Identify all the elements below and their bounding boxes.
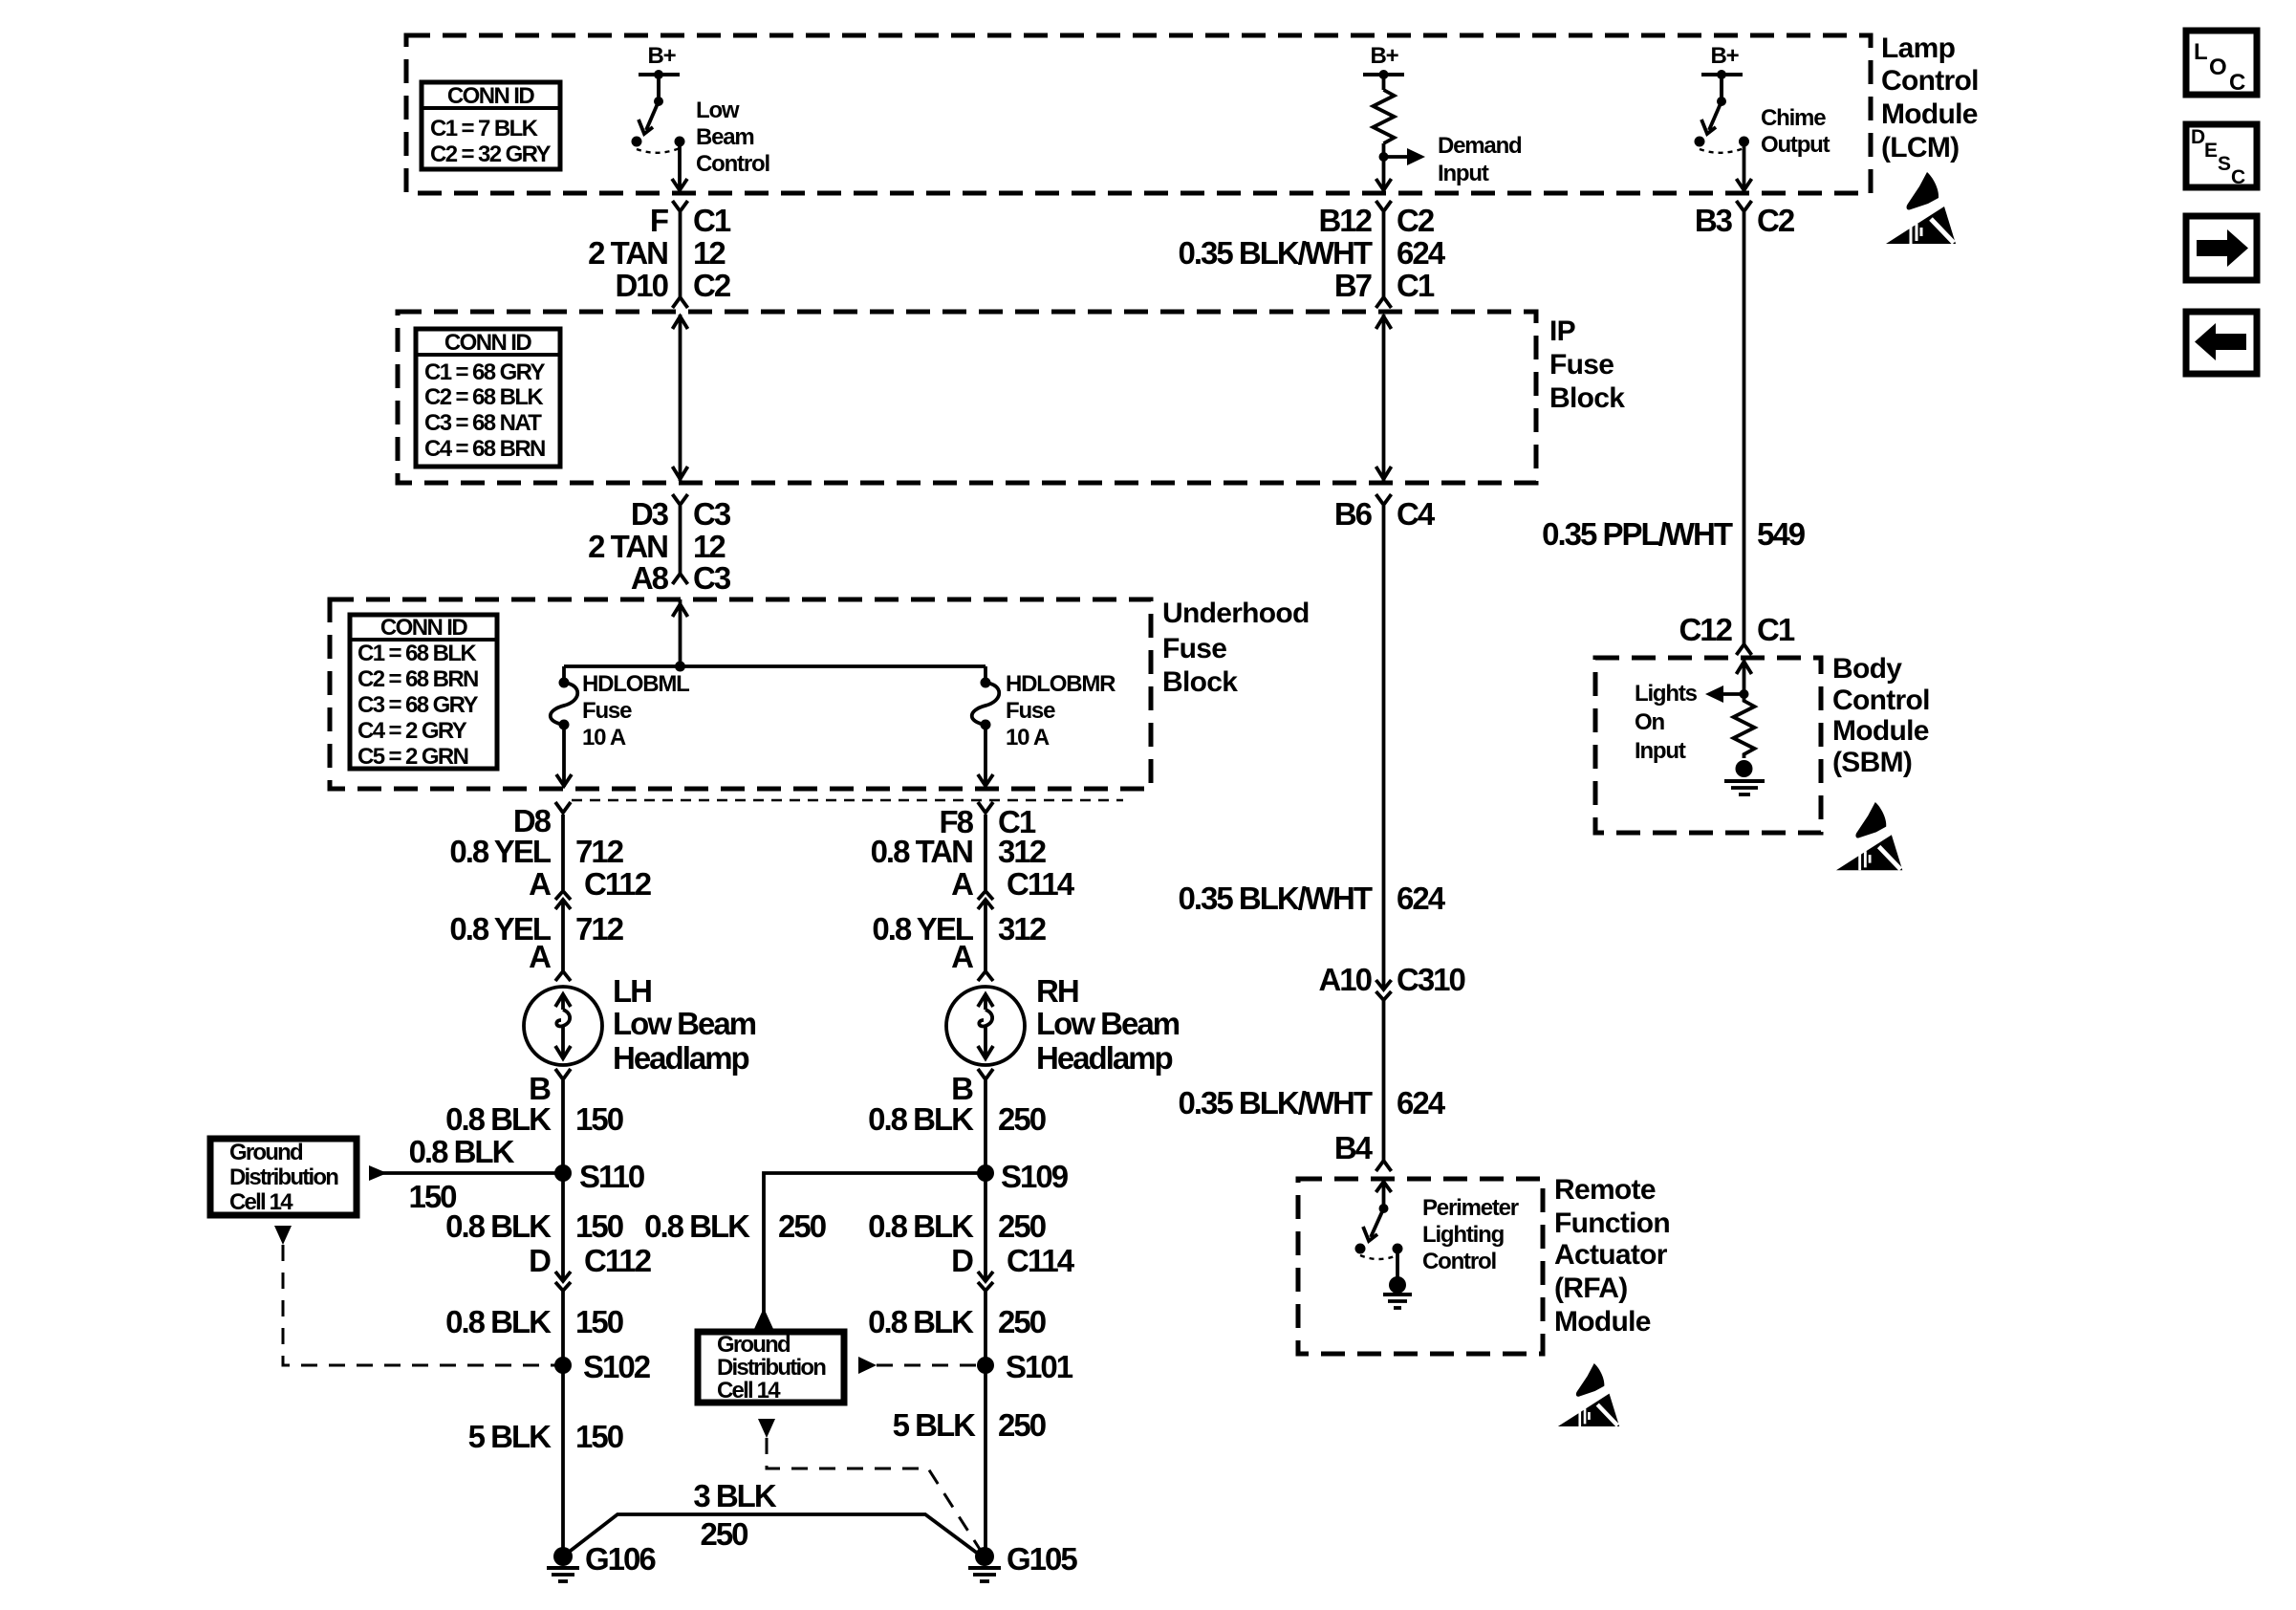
wire: S101 to G105 (984, 1365, 987, 1556)
svg-text:Distribution: Distribution (717, 1355, 826, 1381)
wire: inside IP fuse block (left) (673, 315, 688, 481)
RH headlamp label (1036, 973, 1180, 1076)
svg-text:Cell 14: Cell 14 (717, 1378, 781, 1403)
svg-text:Underhood: Underhood (1162, 598, 1310, 629)
svg-text:O: O (2209, 54, 2227, 80)
wire: IP to Underhood (2 TAN 12) (679, 506, 682, 574)
svg-text:CONN ID: CONN ID (444, 330, 531, 356)
svg-text:C5 = 2 GRN: C5 = 2 GRN (357, 744, 468, 770)
svg-text:Control: Control (696, 151, 769, 177)
svg-text:250: 250 (998, 1304, 1046, 1339)
Perimeter Lighting Control label (1422, 1195, 1519, 1274)
Underhood CONN ID table (350, 615, 497, 770)
svg-text:Beam: Beam (696, 124, 754, 150)
svg-text:E: E (2204, 140, 2218, 162)
svg-text:Control: Control (1881, 65, 1979, 97)
connector Y below RH lamp (pin B) (978, 1069, 993, 1079)
svg-text:D10: D10 (615, 268, 667, 303)
connector chevron above BCM (C12/C1) (1737, 644, 1752, 655)
svg-text:Fuse: Fuse (1162, 633, 1226, 664)
wire labels A10 C310 (1318, 962, 1464, 997)
svg-text:10 A: 10 A (1006, 725, 1050, 751)
svg-text:B4: B4 (1334, 1130, 1374, 1165)
svg-text:C2: C2 (1757, 203, 1795, 238)
wire: C310 to RFA (0.35 BLK/WHT 624) (1382, 1000, 1386, 1161)
wire: C112 to S102 (561, 1291, 565, 1365)
wire: S109 to C114 lower (984, 1173, 987, 1281)
svg-text:RH: RH (1036, 973, 1078, 1009)
svg-text:C1: C1 (1757, 612, 1795, 647)
wire: left fuse output to underhood edge (556, 725, 572, 787)
svg-text:B6: B6 (1334, 496, 1373, 532)
svg-text:Input: Input (1438, 161, 1489, 186)
wire labels 0.8 BLK 150 / D C112 (445, 1208, 652, 1278)
Demand Input label (1438, 133, 1522, 186)
svg-text:Module: Module (1881, 98, 1978, 130)
svg-text:0.8 BLK: 0.8 BLK (445, 1101, 552, 1137)
fuse HDLOBML 10A (551, 666, 578, 730)
wire: S102 to G106 (561, 1365, 565, 1556)
svg-text:Low Beam: Low Beam (1036, 1006, 1180, 1041)
svg-text:2 TAN: 2 TAN (588, 529, 667, 564)
svg-text:0.8 TAN: 0.8 TAN (871, 834, 973, 869)
ground inside BCM (1724, 760, 1765, 794)
IP CONN ID table (416, 329, 560, 467)
node: lights on input junction with left arrow (1705, 685, 1749, 703)
wire labels B3 C2 / 0.35 PPL/WHT 549 / C12 C1 (1542, 203, 1806, 647)
fuse HDLOBMR 10A (972, 666, 1000, 730)
svg-text:B+: B+ (1711, 43, 1740, 69)
splice S109 (977, 1159, 1069, 1194)
resistor: demand input pull-up (1374, 75, 1395, 157)
svg-text:Fuse: Fuse (1549, 349, 1614, 381)
svg-text:C2 = 68 BRN: C2 = 68 BRN (357, 666, 478, 692)
module IP Fuse Block dashed box (398, 312, 1536, 483)
svg-text:Headlamp: Headlamp (613, 1040, 749, 1076)
svg-text:Fuse: Fuse (1006, 698, 1055, 724)
module RFA dashed box (1298, 1179, 1543, 1354)
fuse HDLOBMR label (1006, 671, 1116, 751)
svg-text:Perimeter: Perimeter (1422, 1195, 1519, 1221)
svg-text:C114: C114 (1007, 866, 1075, 902)
connector C112 pin D arrow and chevron (555, 1272, 571, 1291)
splice S110 (554, 1159, 644, 1194)
underhood connector C1 thin dashed line (572, 799, 1123, 802)
Low Beam Control label (696, 98, 769, 177)
svg-text:624: 624 (1397, 235, 1446, 271)
svg-text:C1 = 7 BLK: C1 = 7 BLK (430, 116, 539, 141)
svg-text:C3 = 68 NAT: C3 = 68 NAT (424, 410, 542, 436)
wire labels B / 0.8 BLK 250 (868, 1071, 1046, 1137)
svg-text:A10: A10 (1318, 962, 1371, 997)
svg-text:Ground: Ground (229, 1140, 303, 1165)
wire: inside BCM with entry arrow (1737, 658, 1752, 694)
LCM module name text (1881, 33, 1979, 163)
wire: LCM to IP (0.35 BLK/WHT 624) (1382, 212, 1386, 297)
ground G105 (968, 1541, 1077, 1581)
svg-text:150: 150 (575, 1304, 623, 1339)
svg-text:Lamp: Lamp (1881, 33, 1956, 64)
svg-text:0.8 BLK: 0.8 BLK (445, 1208, 552, 1244)
wire: underhood bus (564, 664, 986, 668)
svg-text:B3: B3 (1695, 203, 1733, 238)
lamp RH low beam headlamp (946, 987, 1025, 1065)
connector chevron above IP (D10/C2) (673, 297, 688, 308)
svg-text:S101: S101 (1006, 1349, 1073, 1384)
connector Y below underhood left (D8) (555, 802, 571, 813)
svg-text:0.8 BLK: 0.8 BLK (644, 1208, 750, 1244)
low beam control switch SW1 (632, 75, 685, 153)
svg-text:C2 = 68 BLK: C2 = 68 BLK (424, 384, 544, 410)
svg-text:C112: C112 (584, 866, 652, 902)
B+ supply for low beam switch (639, 43, 680, 79)
connector Y below IP (B6/C4) (1376, 494, 1392, 505)
svg-text:G105: G105 (1007, 1541, 1077, 1577)
svg-text:L: L (2194, 39, 2208, 65)
svg-text:Input: Input (1635, 738, 1686, 764)
svg-text:Remote: Remote (1554, 1174, 1656, 1206)
svg-text:A8: A8 (631, 560, 669, 596)
lamp LH low beam headlamp (524, 987, 602, 1065)
svg-text:Module: Module (1554, 1306, 1651, 1338)
svg-text:Lights: Lights (1635, 681, 1698, 707)
svg-text:0.8 BLK: 0.8 BLK (868, 1304, 974, 1339)
wire labels 0.8 YEL 312 / A (872, 911, 1046, 974)
svg-text:CONN ID: CONN ID (447, 83, 534, 109)
Chime Output label (1761, 105, 1830, 158)
connector chevron above Underhood (A8/C3) (673, 574, 688, 584)
svg-text:549: 549 (1757, 516, 1806, 552)
svg-text:D: D (951, 1243, 973, 1278)
module Underhood Fuse Block dashed box (330, 599, 1151, 789)
svg-text:0.8 YEL: 0.8 YEL (449, 834, 551, 869)
ground G106 (547, 1541, 656, 1581)
dashed wire: center ground distribution to S101 (877, 1364, 977, 1367)
connector Y below LCM (B3/C2) (1737, 201, 1752, 211)
wire labels 0.8 BLK 250 / D C114 (868, 1208, 1075, 1278)
svg-text:C2 = 32 GRY: C2 = 32 GRY (430, 141, 552, 167)
svg-text:C310: C310 (1397, 962, 1465, 997)
connector Y below LH lamp (pin B) (555, 1069, 571, 1079)
wire label 0.35 BLK/WHT 624 (1178, 881, 1445, 916)
wire label 0.8 BLK 150 (445, 1304, 623, 1339)
module LCM dashed box (406, 35, 1871, 193)
connector Y below IP (D3/C3) (673, 494, 688, 505)
wire: RH lamp to S109 (984, 1080, 987, 1173)
svg-text:0.8 BLK: 0.8 BLK (868, 1208, 974, 1244)
wire label 5 BLK 150 (468, 1419, 623, 1454)
wire: inside RFA with entry arrow (1376, 1179, 1392, 1207)
svg-text:Distribution: Distribution (229, 1164, 338, 1190)
LH headlamp label (613, 973, 756, 1076)
svg-text:C3 = 68 GRY: C3 = 68 GRY (357, 692, 479, 718)
svg-text:624: 624 (1397, 881, 1446, 916)
wire: G106 to G105 (3 BLK 250) (563, 1478, 982, 1556)
wire label 5 BLK 250 (893, 1407, 1046, 1443)
BCM module name text (1832, 653, 1930, 778)
svg-text:C4: C4 (1397, 496, 1436, 532)
wire: LH lamp to S110 (561, 1080, 565, 1173)
back arrow icon box (2186, 312, 2257, 374)
wire: underhood feed with entry arrow (673, 599, 688, 666)
svg-text:LH: LH (613, 973, 651, 1009)
wire: right fuse output to underhood edge (978, 725, 993, 787)
svg-text:S109: S109 (1001, 1159, 1069, 1194)
svg-text:Block: Block (1549, 382, 1625, 414)
svg-text:C2: C2 (693, 268, 731, 303)
wire labels B6 C4 (1334, 496, 1436, 532)
arrow from left ground distribution box down (274, 1226, 292, 1245)
svg-text:B7: B7 (1334, 268, 1372, 303)
ground distribution cell 14 box (center) (698, 1332, 844, 1403)
svg-text:Module: Module (1832, 715, 1929, 747)
node: demand input junction with arrow (1379, 148, 1426, 165)
svg-text:C: C (2229, 70, 2245, 96)
svg-text:IP: IP (1549, 315, 1575, 347)
svg-text:S102: S102 (583, 1349, 651, 1384)
svg-text:Actuator: Actuator (1554, 1239, 1668, 1271)
svg-text:S110: S110 (579, 1159, 644, 1194)
svg-text:0.35 BLK/WHT: 0.35 BLK/WHT (1178, 881, 1372, 916)
svg-text:250: 250 (778, 1208, 826, 1244)
svg-text:D3: D3 (631, 496, 669, 532)
ESD symbol near BCM (1836, 802, 1902, 870)
svg-text:B+: B+ (1371, 43, 1399, 69)
wire: right headlamp feed upper segment (984, 815, 987, 890)
svg-text:Body: Body (1832, 653, 1902, 685)
wire: S110 to C112 lower (561, 1173, 565, 1281)
wire label 0.8 BLK 250 (868, 1304, 1046, 1339)
ESD symbol near LCM (1886, 172, 1956, 244)
svg-text:3 BLK: 3 BLK (693, 1478, 777, 1513)
wire: left headlamp feed upper segment (561, 815, 565, 890)
wire: C114 to RH headlamp (984, 917, 987, 971)
connector chevron above IP (B7/C1) (1376, 297, 1392, 308)
ground distribution cell 14 box (left) (210, 1139, 357, 1215)
svg-text:(RFA): (RFA) (1554, 1273, 1627, 1304)
svg-text:C1: C1 (1397, 268, 1435, 303)
svg-text:Output: Output (1761, 132, 1830, 158)
svg-text:Cell 14: Cell 14 (229, 1189, 293, 1215)
wire labels 0.8 YEL 712 / A (449, 911, 623, 974)
wire: IP to C310 (0.35 BLK/WHT 624) (1382, 506, 1386, 990)
arrow from center ground distribution box right (858, 1357, 877, 1374)
ground inside RFA (1383, 1249, 1412, 1308)
wire: LCM to IP fuse block (2 TAN 12) (679, 212, 682, 297)
wire labels D8 / 0.8 YEL 712 / A C112 (449, 803, 651, 902)
svg-text:5 BLK: 5 BLK (893, 1407, 977, 1443)
svg-text:0.35 BLK/WHT: 0.35 BLK/WHT (1178, 235, 1372, 271)
svg-text:712: 712 (575, 911, 624, 946)
B+ supply for chime output switch (1701, 43, 1743, 79)
wire labels D3 C3 / 2 TAN 12 / A8 C3 (588, 496, 731, 596)
connector C114 inline chevrons (978, 891, 993, 917)
svg-text:712: 712 (575, 834, 624, 869)
connector Y below LCM (B12/C2) (1376, 201, 1392, 211)
svg-text:Block: Block (1162, 666, 1238, 698)
fuse HDLOBML label (582, 671, 689, 751)
dashed wire: center ground distribution to G105 (767, 1438, 981, 1551)
svg-text:Low Beam: Low Beam (613, 1006, 756, 1041)
svg-text:HDLOBML: HDLOBML (582, 671, 689, 697)
wire labels B / 0.8 BLK 150 (445, 1071, 623, 1137)
chime output switch (1695, 75, 1750, 153)
wire labels F C1 / 2 TAN 12 / D10 C2 (588, 203, 731, 303)
svg-text:Function: Function (1554, 1207, 1670, 1239)
svg-text:312: 312 (998, 911, 1047, 946)
svg-text:Low: Low (696, 98, 740, 123)
svg-text:D: D (2191, 126, 2205, 148)
svg-text:5 BLK: 5 BLK (468, 1419, 552, 1454)
svg-text:150: 150 (575, 1208, 623, 1244)
svg-text:Control: Control (1832, 685, 1930, 716)
svg-text:C: C (2231, 166, 2245, 188)
connector chevron above RFA (B4) (1376, 1161, 1392, 1171)
svg-text:12: 12 (693, 529, 726, 564)
wire labels F8 C1 / 0.8 TAN 312 / A C114 (871, 804, 1075, 902)
svg-text:312: 312 (998, 834, 1047, 869)
svg-text:B+: B+ (648, 43, 677, 69)
wire: LCM to BCM (0.35 PPL/WHT 549) (1743, 212, 1746, 644)
svg-text:Control: Control (1422, 1249, 1496, 1274)
switch: perimeter lighting control (1355, 1204, 1403, 1259)
svg-text:C3: C3 (693, 496, 731, 532)
svg-text:0.8 BLK: 0.8 BLK (409, 1134, 515, 1169)
DESC icon box (2186, 124, 2257, 188)
splice S101 (977, 1349, 1073, 1384)
connector Y below underhood right (F8/C1) (978, 802, 993, 813)
module BCM dashed box (1595, 658, 1821, 833)
svg-text:A: A (529, 866, 551, 902)
svg-text:Demand: Demand (1438, 133, 1522, 159)
node: bus junction (675, 662, 685, 672)
connector C310 inline chevrons (1376, 980, 1392, 1000)
wire labels B12 C2 / 0.35 BLK/WHT 624 / B7 C1 (1178, 203, 1445, 303)
svg-text:G106: G106 (585, 1541, 656, 1577)
svg-text:2 TAN: 2 TAN (588, 235, 667, 271)
arrow below center ground distribution box (758, 1419, 775, 1438)
svg-text:A: A (529, 939, 551, 974)
connector C112 inline chevrons (555, 891, 571, 917)
svg-text:C1: C1 (693, 203, 731, 238)
svg-text:(SBM): (SBM) (1832, 747, 1912, 778)
svg-text:12: 12 (693, 235, 726, 271)
wire label 0.35 BLK/WHT 624 / B4 (1178, 1085, 1445, 1165)
svg-text:F: F (650, 203, 668, 238)
svg-text:250: 250 (700, 1516, 747, 1552)
svg-text:250: 250 (998, 1101, 1046, 1137)
svg-text:C12: C12 (1679, 612, 1732, 647)
Underhood Fuse Block name text (1162, 598, 1310, 698)
splice S102 (554, 1349, 651, 1384)
connector Y below LCM (F/C1) (673, 201, 688, 211)
connector C114 pin D arrow and chevron (978, 1272, 993, 1291)
svg-text:A: A (951, 866, 973, 902)
wire: inside IP fuse block (middle) (1376, 315, 1392, 481)
svg-text:150: 150 (575, 1419, 623, 1454)
wire: ground distribution stub to S110 (369, 1134, 563, 1214)
svg-text:10 A: 10 A (582, 725, 626, 751)
svg-text:B12: B12 (1318, 203, 1372, 238)
svg-text:C1 = 68 GRY: C1 = 68 GRY (424, 359, 546, 385)
svg-text:Lighting: Lighting (1422, 1222, 1505, 1248)
B+ supply for demand input (1363, 43, 1404, 79)
RFA module name text (1554, 1174, 1670, 1338)
wire: chime output to LCM edge (1737, 141, 1752, 191)
svg-text:A: A (951, 939, 973, 974)
svg-text:C1 = 68 BLK: C1 = 68 BLK (357, 641, 477, 666)
connector chevron at RH lamp pin A (978, 971, 993, 981)
wire: S109 branch to ground distribution (644, 1173, 986, 1329)
svg-text:150: 150 (575, 1101, 623, 1137)
svg-text:CONN ID: CONN ID (380, 615, 467, 641)
svg-text:Ground: Ground (717, 1332, 791, 1358)
IP Fuse Block name text (1549, 315, 1625, 414)
LOC icon box (2186, 31, 2257, 96)
svg-text:Headlamp: Headlamp (1036, 1040, 1173, 1076)
svg-text:D: D (529, 1243, 551, 1278)
svg-text:HDLOBMR: HDLOBMR (1006, 671, 1116, 697)
dashed wire: left ground distribution to S102 (283, 1245, 555, 1365)
wire: C114 to S101 (984, 1291, 987, 1365)
wire: C112 to LH headlamp (561, 917, 565, 971)
wire: demand junction to LCM edge (1376, 157, 1392, 191)
svg-text:S: S (2218, 153, 2231, 175)
svg-text:0.8 BLK: 0.8 BLK (445, 1304, 552, 1339)
svg-text:0.35 BLK/WHT: 0.35 BLK/WHT (1178, 1085, 1372, 1120)
svg-text:250: 250 (998, 1407, 1046, 1443)
Lights On Input label (1635, 681, 1698, 764)
svg-text:0.8 BLK: 0.8 BLK (868, 1101, 974, 1137)
svg-text:0.35 PPL/WHT: 0.35 PPL/WHT (1542, 516, 1733, 552)
svg-text:Chime: Chime (1761, 105, 1826, 131)
svg-text:C112: C112 (584, 1243, 652, 1278)
wire: low beam control output to LCM edge (672, 141, 687, 191)
svg-text:624: 624 (1397, 1085, 1446, 1120)
svg-text:Fuse: Fuse (582, 698, 632, 724)
forward arrow icon box (2186, 216, 2257, 280)
LCM CONN ID table (422, 82, 560, 169)
svg-text:250: 250 (998, 1208, 1046, 1244)
svg-text:C3: C3 (693, 560, 731, 596)
svg-text:C2: C2 (1397, 203, 1435, 238)
svg-text:C4 = 68 BRN: C4 = 68 BRN (424, 436, 545, 462)
svg-text:C114: C114 (1007, 1243, 1075, 1278)
ESD symbol near RFA (1558, 1363, 1619, 1426)
resistor inside BCM (1734, 694, 1755, 758)
svg-text:(LCM): (LCM) (1881, 132, 1959, 163)
svg-text:On: On (1635, 709, 1664, 735)
connector chevron at LH lamp pin A (555, 971, 571, 981)
svg-text:C4 = 2 GRY: C4 = 2 GRY (357, 718, 467, 744)
